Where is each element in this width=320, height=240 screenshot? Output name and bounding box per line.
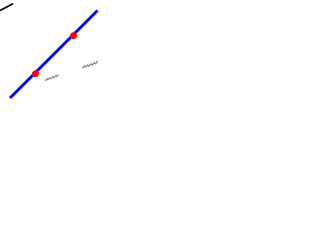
node A [32,70,39,77]
gray label A [82,61,97,68]
wire [10,11,98,99]
node B [70,32,77,39]
black tick [0,4,13,11]
gray label B [45,75,59,81]
